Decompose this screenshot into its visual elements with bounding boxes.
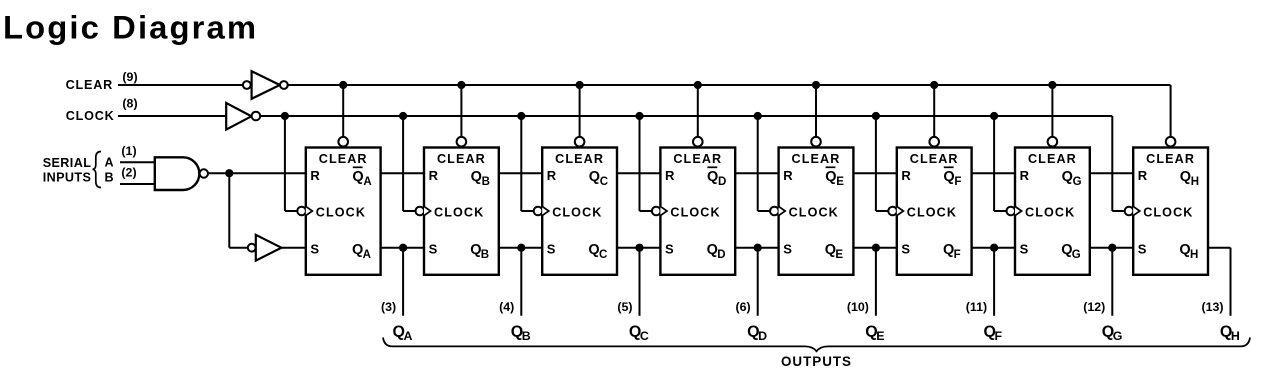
svg-text:S: S: [429, 241, 438, 256]
wire: CLOCK bus drop to FF H clock: [1111, 116, 1113, 211]
svg-text:S: S: [310, 241, 319, 256]
FFH label Q-bar H output: [1180, 169, 1199, 188]
inverter U2 (serial data, input bubble): [248, 235, 282, 261]
svg-text:CLEAR: CLEAR: [66, 78, 113, 92]
junction: QC output node: [635, 244, 643, 252]
svg-text:S: S: [783, 241, 792, 256]
svg-text:(4): (4): [499, 300, 514, 314]
svg-text:B: B: [482, 176, 490, 188]
wire: CLEAR drop to FF D: [697, 85, 699, 137]
svg-text:A: A: [404, 329, 413, 343]
FFF label Q-bar F output: [943, 167, 961, 188]
svg-text:Q: Q: [352, 169, 363, 185]
svg-text:Q: Q: [943, 169, 954, 185]
FFE label Q E output: [825, 242, 844, 261]
svg-text:A: A: [105, 155, 114, 169]
flip-flop FFH: [1133, 148, 1208, 275]
svg-text:Q: Q: [470, 242, 481, 258]
FFC CLEAR pin bubble: [575, 137, 585, 147]
FFF CLOCK pin bubble and wedge: [888, 206, 903, 215]
FFG CLEAR pin bubble: [1048, 137, 1058, 147]
FFC label Q C output: [588, 242, 607, 261]
svg-text:CLEAR: CLEAR: [319, 152, 368, 166]
junction on CLEAR bus above FF G: [1048, 81, 1056, 89]
junction on CLEAR bus above FF D: [694, 81, 702, 89]
wire: NAND output down to serial inverter: [228, 173, 230, 248]
wire: CLOCK bus across top: [260, 115, 1112, 117]
svg-text:H: H: [1231, 329, 1240, 343]
junction on CLOCK bus for FF D: [635, 112, 643, 120]
svg-text:H: H: [1191, 176, 1199, 188]
svg-text:(11): (11): [966, 300, 987, 314]
svg-text:Q: Q: [707, 242, 718, 258]
junction: QG output node: [1108, 244, 1116, 252]
junction on CLOCK bus for FF A: [281, 112, 289, 120]
FFA label Q-bar A output: [352, 167, 371, 188]
svg-text:S: S: [547, 241, 556, 256]
FFG label Q G output: [1061, 242, 1081, 261]
wire: Q of FF C to S of FF D: [617, 247, 660, 249]
FFG CLOCK pin bubble and wedge: [1007, 206, 1022, 215]
wire: CLEAR drop to FF C: [579, 85, 581, 137]
brace grouping outputs: [383, 338, 1250, 352]
svg-text:Q: Q: [588, 242, 599, 258]
FFF label Q F output: [943, 242, 961, 261]
svg-text:G: G: [1073, 176, 1082, 188]
wire: Q-bar of FF F to R of FF G: [972, 172, 1015, 174]
svg-text:S: S: [665, 241, 674, 256]
wire: QC output drop: [639, 248, 641, 316]
svg-text:(10): (10): [847, 300, 869, 314]
svg-text:Q: Q: [471, 169, 482, 185]
svg-text:INPUTS: INPUTS: [43, 171, 92, 185]
svg-text:CLEAR: CLEAR: [910, 152, 959, 166]
svg-text:E: E: [876, 329, 884, 343]
wire: Q of FF E to S of FF F: [853, 247, 896, 249]
FFD CLEAR pin bubble: [693, 137, 703, 147]
wire: Q-bar of FF A to R of FF B: [381, 172, 424, 174]
FFD label Q D output: [707, 242, 726, 261]
brace for serial inputs A and B: [93, 152, 101, 188]
svg-text:CLEAR: CLEAR: [1028, 152, 1077, 166]
wire: Q-bar of FF G to R of FF H: [1090, 172, 1133, 174]
wire: CLEAR drop to FF E: [815, 85, 817, 137]
FFC label Q-bar C output: [589, 169, 608, 188]
FFG label Q-bar G output: [1062, 169, 1082, 188]
junction on CLEAR bus above FF C: [576, 81, 584, 89]
wire: CLOCK drop to FF C: [520, 116, 522, 211]
svg-text:D: D: [758, 329, 767, 343]
svg-text:G: G: [1072, 249, 1081, 261]
FFH label Q H output: [1179, 242, 1198, 261]
FFA CLEAR pin bubble: [338, 137, 348, 147]
flip-flop FFD: [660, 148, 735, 275]
label QH output: [1220, 324, 1240, 344]
FFE CLOCK pin bubble and wedge: [770, 206, 785, 215]
wire: CLOCK drop to FF G: [993, 116, 995, 211]
svg-text:E: E: [835, 249, 843, 261]
svg-text:Q: Q: [352, 242, 363, 258]
svg-text:(12): (12): [1083, 300, 1105, 314]
label QF output: [984, 324, 1003, 344]
wire: Q of FF G to S of FF H: [1090, 247, 1133, 249]
svg-text:R: R: [901, 168, 911, 183]
svg-text:Q: Q: [825, 242, 836, 258]
flip-flop FFF: [897, 148, 972, 275]
wire: Q of FF D to S of FF E: [735, 247, 778, 249]
FFH CLEAR pin bubble: [1166, 137, 1176, 147]
svg-text:CLOCK: CLOCK: [316, 206, 366, 220]
svg-text:Q: Q: [1180, 169, 1191, 185]
flip-flop FFA: [306, 148, 381, 275]
wire: CLOCK drop to FF D: [639, 116, 641, 211]
svg-text:R: R: [1138, 168, 1148, 183]
wire: Q-bar of FF B to R of FF C: [499, 172, 542, 174]
FFA CLOCK pin bubble and wedge: [297, 206, 312, 215]
svg-text:CLOCK: CLOCK: [1143, 206, 1193, 220]
svg-text:C: C: [640, 329, 649, 343]
svg-text:CLOCK: CLOCK: [670, 206, 720, 220]
svg-text:Q: Q: [1061, 242, 1072, 258]
junction: QF output node: [990, 244, 998, 252]
junction on CLOCK bus for FF F: [872, 112, 880, 120]
wire: CLOCK drop to FF B: [402, 116, 404, 211]
FFD CLOCK pin bubble and wedge: [652, 206, 667, 215]
junction: QE output node: [872, 244, 880, 252]
wire: CLOCK pin 8 to buffer input: [118, 115, 226, 117]
junction on CLEAR bus above FF B: [457, 81, 465, 89]
label QB output: [511, 324, 531, 344]
svg-text:(9): (9): [122, 70, 137, 84]
wire: QE output drop: [875, 248, 877, 316]
svg-text:CLOCK: CLOCK: [552, 206, 602, 220]
svg-text:D: D: [718, 176, 726, 188]
svg-text:CLOCK: CLOCK: [434, 206, 484, 220]
FFA label Q A output: [352, 242, 371, 261]
wire: CLOCK drop to FF E: [757, 116, 759, 211]
FFE label Q-bar E output: [825, 167, 844, 188]
junction on CLOCK bus for FF B: [399, 112, 407, 120]
svg-text:(6): (6): [736, 300, 751, 314]
junction on CLOCK bus for FF C: [517, 112, 525, 120]
svg-text:F: F: [995, 329, 1003, 343]
svg-text:CLEAR: CLEAR: [1146, 152, 1195, 166]
svg-text:Logic Diagram: Logic Diagram: [3, 9, 258, 46]
svg-text:A: A: [363, 176, 371, 188]
inverter U4 (CLEAR buffer, bubbles both ends): [243, 71, 288, 99]
flip-flop FFG: [1015, 148, 1090, 275]
junction: QD output node: [754, 244, 762, 252]
wire: QH output from FF H: [1208, 247, 1231, 249]
svg-text:(5): (5): [617, 300, 632, 314]
junction on CLEAR bus above FF F: [930, 81, 938, 89]
svg-text:Q: Q: [825, 169, 836, 185]
svg-text:R: R: [665, 168, 675, 183]
svg-text:CLOCK: CLOCK: [907, 206, 957, 220]
svg-text:S: S: [1020, 241, 1029, 256]
flip-flop FFE: [779, 148, 854, 275]
wire: Q of FF B to S of FF C: [499, 247, 542, 249]
svg-text:C: C: [600, 176, 608, 188]
svg-text:(3): (3): [381, 300, 396, 314]
svg-text:B: B: [522, 329, 531, 343]
junction on CLOCK bus for FF G: [990, 112, 998, 120]
svg-text:A: A: [363, 249, 371, 261]
svg-text:CLEAR: CLEAR: [792, 152, 841, 166]
svg-text:R: R: [1020, 168, 1030, 183]
svg-text:CLEAR: CLEAR: [437, 152, 486, 166]
wire: inverter U2 output to FF A S input: [281, 247, 305, 249]
flip-flop FFB: [424, 148, 499, 275]
svg-text:Q: Q: [943, 242, 954, 258]
svg-text:B: B: [481, 249, 489, 261]
svg-text:R: R: [783, 168, 793, 183]
junction on CLEAR bus above FF E: [812, 81, 820, 89]
flip-flop FFC: [542, 148, 617, 275]
FFE CLEAR pin bubble: [811, 137, 821, 147]
FFB label Q B output: [470, 242, 489, 261]
svg-text:SERIAL: SERIAL: [43, 156, 92, 170]
FFB CLOCK pin bubble and wedge: [416, 206, 431, 215]
wire: CLEAR drop to FF B: [460, 85, 462, 137]
svg-text:(1): (1): [121, 144, 136, 158]
wire: Q-bar of FF E to R of FF F: [853, 172, 896, 174]
svg-text:Q: Q: [1062, 169, 1073, 185]
svg-text:R: R: [429, 168, 439, 183]
wire: Q of FF A to S of FF B: [381, 247, 424, 249]
FFB label Q-bar B output: [471, 169, 490, 188]
label QD output: [747, 324, 767, 344]
wire: CLEAR drop to FF G: [1051, 85, 1053, 137]
wire: Q-bar of FF D to R of FF E: [735, 172, 778, 174]
wire: QA output drop: [402, 248, 404, 316]
svg-text:(13): (13): [1201, 300, 1223, 314]
label QC output: [629, 324, 649, 344]
inverter U3 (CLOCK buffer, output bubble): [226, 103, 260, 130]
wire: CLOCK drop to FF A: [284, 116, 286, 211]
label QA output: [393, 324, 413, 344]
svg-text:R: R: [310, 168, 320, 183]
wire: Q-bar of FF C to R of FF D: [617, 172, 660, 174]
svg-text:CLOCK: CLOCK: [66, 109, 115, 123]
wire: CLEAR drop to FF F: [933, 85, 935, 137]
wire: CLEAR pin 9 to inverter input: [118, 84, 243, 86]
svg-text:D: D: [717, 249, 725, 261]
wire: CLOCK drop to FF F: [875, 116, 877, 211]
wire: QB output drop: [520, 248, 522, 316]
junction on CLEAR bus above FF A: [339, 81, 347, 89]
svg-text:CLEAR: CLEAR: [673, 152, 722, 166]
junction on CLOCK bus for FF E: [754, 112, 762, 120]
wire: Q of FF F to S of FF G: [972, 247, 1015, 249]
NAND gate U1 (serial inputs A,B): [155, 157, 208, 190]
svg-text:R: R: [547, 168, 557, 183]
label QE output: [865, 324, 884, 344]
svg-text:(8): (8): [122, 97, 137, 111]
svg-text:C: C: [599, 249, 607, 261]
wire: CLEAR bus across top: [287, 84, 1171, 86]
wire: NAND output to FF A R input: [208, 172, 306, 174]
junction: NAND output node: [225, 169, 233, 177]
wire: CLEAR drop to FF A: [342, 85, 344, 137]
svg-text:Q: Q: [589, 169, 600, 185]
svg-text:G: G: [1113, 329, 1123, 343]
FFH CLOCK pin bubble and wedge: [1125, 206, 1140, 215]
junction: QB output node: [517, 244, 525, 252]
wire: CLEAR bus drop to FF H: [1170, 85, 1172, 137]
wire: serial input B to NAND: [120, 183, 155, 185]
svg-text:OUTPUTS: OUTPUTS: [781, 354, 852, 369]
svg-text:B: B: [105, 171, 114, 185]
svg-text:E: E: [836, 176, 844, 188]
junction: QA output node: [399, 244, 407, 252]
svg-text:(2): (2): [121, 166, 136, 180]
wire: QF output drop: [993, 248, 995, 316]
svg-text:F: F: [954, 249, 961, 261]
svg-text:CLEAR: CLEAR: [555, 152, 604, 166]
svg-text:CLOCK: CLOCK: [789, 206, 839, 220]
FFD label Q-bar D output: [707, 167, 726, 188]
svg-text:H: H: [1190, 249, 1198, 261]
svg-text:F: F: [954, 176, 961, 188]
FFB CLEAR pin bubble: [457, 137, 467, 147]
FFF CLEAR pin bubble: [929, 137, 939, 147]
svg-text:CLOCK: CLOCK: [1025, 206, 1075, 220]
svg-text:Q: Q: [707, 169, 718, 185]
label QG output: [1102, 324, 1123, 344]
FFC CLOCK pin bubble and wedge: [534, 206, 549, 215]
wire: QD output drop: [757, 248, 759, 316]
svg-text:S: S: [901, 241, 910, 256]
wire: serial input A to NAND: [120, 161, 155, 163]
svg-text:S: S: [1138, 241, 1147, 256]
svg-text:Q: Q: [1179, 242, 1190, 258]
wire: QG output drop: [1111, 248, 1113, 316]
